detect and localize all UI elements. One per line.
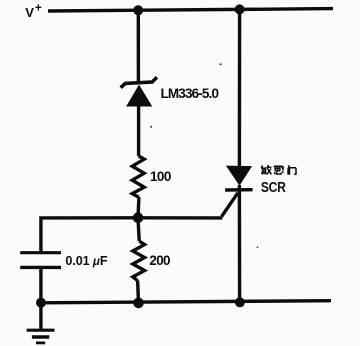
resistor R2 zigzag (133, 241, 145, 281)
node V+ label (25, 2, 42, 19)
wire mid junction to R2 (138, 218, 139, 241)
glyph 敏 (261, 165, 272, 174)
node junction top zener branch (133, 5, 143, 15)
node junction top SCR branch (235, 4, 245, 14)
wire top rail (48, 9, 333, 11)
glyph 感 (274, 166, 284, 174)
label 敏感门 (hand-drawn glyphs) (261, 165, 296, 175)
wire zener anode to R1 (137, 106, 140, 157)
node bottom junction R2 (133, 298, 144, 309)
node bottom junction SCR (235, 297, 245, 307)
svg-text:200: 200 (149, 253, 170, 268)
svg-text:SCR: SCR (261, 179, 286, 195)
wire top rail to zener cathode (137, 10, 140, 83)
wire bottom rail (41, 301, 331, 303)
wire capacitor corner to mid junction (41, 218, 138, 252)
svg-text:V: V (25, 5, 34, 20)
capacitor C1 bottom plate (20, 266, 61, 269)
glyph 门 (288, 165, 296, 174)
node mid junction (133, 212, 144, 223)
svg-text:+: + (35, 2, 42, 14)
SCR Q1 anode triangle (226, 166, 252, 186)
scan speck right of R2 (257, 246, 259, 248)
wire SCR anode from top rail (238, 9, 242, 166)
resistor R1 zigzag (132, 156, 144, 197)
zener diode D1 cathode bar (121, 77, 157, 88)
ground (27, 303, 55, 343)
scan speck below zener (150, 126, 152, 128)
svg-text:LM336-5.0: LM336-5.0 (161, 86, 219, 101)
wire SCR gate diagonal (222, 193, 238, 217)
scan speck near zener label (220, 63, 222, 65)
capacitor C1 top plate (20, 251, 61, 254)
SCR Q1 cathode bar (225, 188, 253, 192)
svg-text:100: 100 (150, 169, 171, 184)
wire capacitor to bottom rail (39, 267, 42, 302)
wire R2 to bottom rail (136, 280, 140, 303)
wire R1 to mid junction (136, 197, 140, 218)
wire mid junction to SCR gate foot (138, 216, 222, 219)
zener diode D1 anode triangle (126, 85, 152, 107)
node bottom-left junction (36, 298, 46, 308)
wire SCR cathode to bottom rail (238, 185, 242, 302)
svg-text:0.01 μF: 0.01 μF (65, 254, 107, 268)
